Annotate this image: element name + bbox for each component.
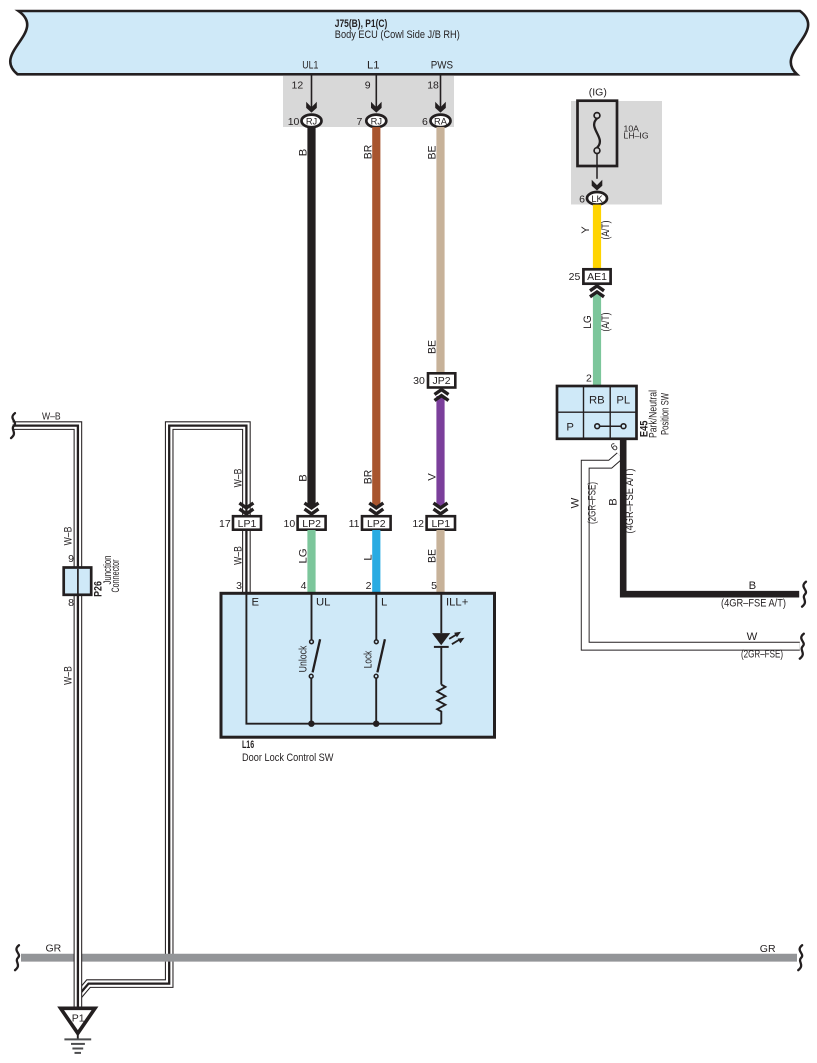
break (GR right) [798, 945, 802, 970]
svg-text:W–B: W–B [232, 546, 244, 565]
svg-text:2: 2 [586, 373, 592, 385]
svg-text:E: E [252, 597, 260, 609]
svg-text:LG: LG [298, 548, 310, 563]
svg-text:LP1: LP1 [431, 518, 450, 530]
wire L (blue) [372, 530, 380, 594]
chevrons into LP2 (10) [305, 503, 319, 508]
svg-text:(A/T): (A/T) [600, 220, 612, 239]
connector RJ pin 10 [302, 115, 322, 128]
svg-text:8: 8 [68, 597, 74, 609]
svg-text:18: 18 [427, 79, 439, 91]
svg-text:2: 2 [366, 580, 372, 592]
svg-text:6: 6 [609, 441, 621, 454]
svg-text:12: 12 [292, 79, 304, 91]
svg-text:W–B: W–B [62, 527, 74, 546]
svg-text:B: B [298, 149, 310, 157]
wire W-B (from L16 E terminal up over and down to ground) [78, 426, 246, 996]
svg-text:11: 11 [349, 518, 360, 530]
junction connector P26 [64, 568, 91, 595]
connector LP1 pin 12 [427, 516, 455, 530]
svg-text:RJ: RJ [371, 117, 382, 127]
svg-text:B: B [749, 580, 757, 592]
svg-text:LG: LG [582, 315, 594, 329]
wire V (violet) [436, 396, 444, 506]
break (W wire right) [800, 634, 804, 659]
svg-text:(IG): (IG) [589, 87, 607, 99]
svg-text:BE: BE [427, 145, 439, 159]
svg-text:Position SW: Position SW [660, 393, 672, 435]
junction dot UL/bus [308, 721, 314, 727]
svg-text:W: W [747, 631, 758, 643]
svg-text:BR: BR [362, 470, 374, 485]
wire Y (yellow) [593, 205, 601, 270]
LED light arrow 1 [449, 635, 456, 639]
wire B (4GR-FSE A/T) thick black [623, 439, 799, 594]
switch Unlock [310, 640, 314, 644]
svg-text:Lock: Lock [362, 651, 374, 669]
svg-text:Y: Y [580, 226, 592, 234]
wire UL column [311, 593, 313, 640]
svg-text:9: 9 [365, 79, 371, 91]
switch contact inside E45 [600, 425, 621, 427]
svg-text:3: 3 [236, 580, 242, 592]
LED light arrow 2 [452, 640, 460, 645]
wire BE (beige) to ILL+ [436, 530, 444, 594]
svg-text:ILL+: ILL+ [446, 597, 469, 609]
wire E column and bottom bus [246, 593, 441, 723]
svg-text:V: V [427, 473, 439, 481]
connector AE1 pin 25 [583, 269, 610, 283]
LED D1 [432, 633, 450, 645]
wire pin 12 [311, 74, 313, 112]
svg-text:30: 30 [413, 375, 425, 387]
svg-text:(2GR–FSE): (2GR–FSE) [586, 482, 598, 524]
junction JP2 pin 30 [428, 373, 455, 387]
svg-text:25: 25 [569, 271, 581, 283]
svg-text:AE1: AE1 [587, 271, 607, 283]
svg-text:LP1: LP1 [238, 518, 257, 530]
svg-text:(4GR–FSE A/T): (4GR–FSE A/T) [624, 468, 636, 533]
connector RA pin 6 [431, 115, 451, 128]
wire fuse to LK [596, 154, 598, 179]
svg-text:Body ECU (Cowl Side J/B RH): Body ECU (Cowl Side J/B RH) [335, 29, 460, 41]
svg-text:JP2: JP2 [433, 375, 451, 387]
svg-text:UL1: UL1 [302, 60, 318, 72]
svg-text:17: 17 [219, 518, 231, 530]
svg-text:PL: PL [616, 395, 630, 407]
fuse 10A LH-IG [578, 101, 618, 166]
svg-text:9: 9 [68, 553, 74, 565]
svg-text:GR: GR [46, 943, 62, 955]
svg-text:6: 6 [579, 193, 585, 205]
svg-text:BR: BR [362, 145, 374, 160]
svg-text:RA: RA [434, 117, 448, 127]
svg-text:LH–IG: LH–IG [624, 131, 649, 141]
svg-text:W–B: W–B [42, 411, 61, 423]
svg-text:L1: L1 [367, 60, 380, 72]
svg-text:7: 7 [356, 116, 362, 128]
break (W-B left) [11, 413, 15, 438]
switch E45 Park/Neutral Position SW [557, 386, 637, 439]
wire B (black) UL1 run [307, 127, 315, 506]
wire GR (gray) [21, 954, 797, 962]
svg-text:BE: BE [427, 340, 439, 354]
svg-text:L: L [381, 597, 387, 609]
wire pin 18 [440, 74, 442, 112]
ECU block J75(B),P1(C) band [10, 11, 808, 74]
svg-text:LP2: LP2 [302, 518, 321, 530]
connector LP2 pin 10 [298, 516, 326, 530]
switch Lock [374, 640, 378, 644]
connector LK pin 6 [587, 192, 607, 205]
svg-text:BE: BE [427, 549, 439, 563]
svg-text:(2GR–FSE): (2GR–FSE) [741, 649, 783, 661]
connector LP2 pin 11 [362, 516, 391, 530]
svg-text:Unlock: Unlock [298, 645, 310, 672]
svg-text:RJ: RJ [306, 117, 317, 127]
chevrons into JP2 [435, 390, 449, 395]
connector RJ pin 7 [366, 115, 386, 128]
svg-text:GR: GR [760, 943, 776, 955]
svg-text:W: W [570, 497, 582, 508]
switch L16 Door Lock Control SW box [221, 593, 495, 737]
svg-text:W–B: W–B [62, 666, 74, 685]
svg-text:6: 6 [422, 116, 428, 128]
wire BR (brown) L1 run [372, 127, 380, 506]
resistor (illumination) [437, 685, 445, 724]
svg-text:RB: RB [589, 395, 605, 407]
wire ILL+ column [440, 593, 442, 633]
svg-text:UL: UL [316, 597, 330, 609]
chevrons into LP1 (17) [239, 503, 253, 508]
wire LG (green) [307, 530, 315, 594]
svg-text:Door Lock Control SW: Door Lock Control SW [242, 752, 334, 764]
wire L column [375, 593, 377, 640]
svg-text:PWS: PWS [431, 60, 454, 72]
svg-text:Connector: Connector [110, 559, 122, 592]
arrow into RJ [371, 102, 382, 113]
svg-text:L: L [362, 554, 374, 560]
break (GR left) [15, 945, 19, 970]
svg-text:Park/Neutral: Park/Neutral [648, 390, 660, 438]
ground P1 [61, 1008, 95, 1033]
chevrons into LP2 (11) [369, 503, 383, 508]
svg-text:P: P [566, 422, 574, 434]
chevrons into AE1 [590, 286, 604, 291]
svg-text:L16: L16 [242, 739, 254, 751]
svg-text:J75(B), P1(C): J75(B), P1(C) [335, 18, 388, 30]
svg-text:(A/T): (A/T) [600, 312, 612, 331]
svg-text:LK: LK [591, 194, 603, 204]
svg-text:P1: P1 [72, 1013, 85, 1025]
svg-text:B: B [608, 498, 620, 506]
arrow into LK [592, 180, 603, 191]
junction block shading (top) [283, 76, 454, 127]
break (B wire right) [802, 582, 806, 607]
junction dot L/bus [373, 721, 379, 727]
connector LP1 pin 17 [233, 516, 261, 530]
svg-text:4: 4 [301, 580, 307, 592]
wire LG (green, A/T) [593, 294, 601, 387]
chevrons into LP1 (12) [434, 503, 448, 508]
wire W (2GR-FSE) white [585, 456, 800, 646]
svg-text:(4GR–FSE A/T): (4GR–FSE A/T) [721, 598, 786, 610]
junction block shading (fuse) [571, 101, 662, 205]
svg-text:5: 5 [431, 580, 437, 592]
svg-text:10: 10 [284, 518, 296, 530]
svg-text:LP2: LP2 [367, 518, 386, 530]
svg-text:12: 12 [412, 518, 424, 530]
wire W-B (left, from off-page to ground P1) [13, 426, 78, 1008]
arrow into RA [435, 102, 446, 113]
wire pin 9 [375, 74, 377, 112]
svg-text:10: 10 [288, 116, 300, 128]
wire BE (beige) PWS run [436, 127, 444, 374]
svg-text:B: B [298, 474, 310, 482]
ground bars [64, 1039, 91, 1053]
arrow into RJ [306, 102, 317, 113]
